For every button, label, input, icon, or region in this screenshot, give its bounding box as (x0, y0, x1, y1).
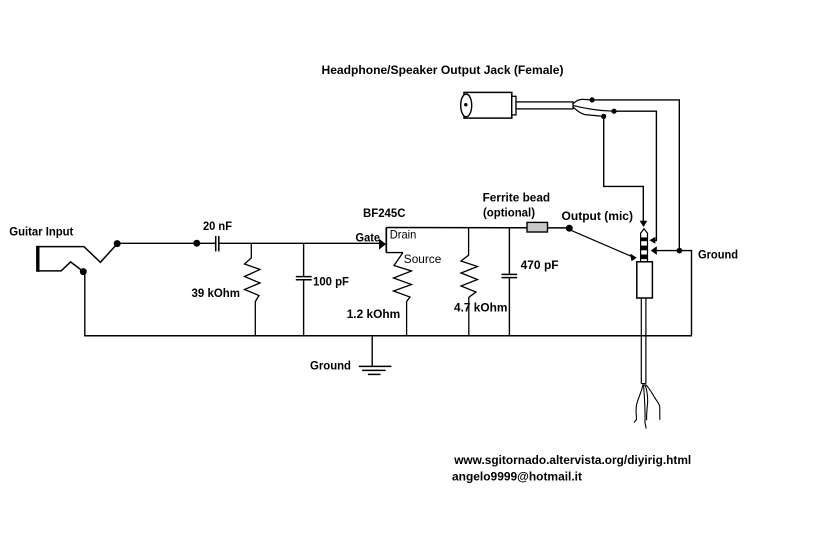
label: Drain (390, 227, 417, 241)
label: email (452, 470, 582, 484)
wire: ground link to right bus (657, 251, 692, 336)
wire: C1 to gate (220, 242, 380, 244)
node: contact B junction dot (611, 109, 616, 114)
label: 100 pF (313, 275, 349, 289)
label: 470 pF (521, 258, 559, 272)
node: contact A junction dot (590, 97, 595, 102)
label: (optional) (483, 205, 535, 219)
wire: bottom ground rail (84, 335, 692, 337)
svg-text:Headphone/Speaker Output Jack: Headphone/Speaker Output Jack (Female) (322, 63, 564, 77)
label: BF245C (363, 206, 406, 220)
svg-text:Ground: Ground (310, 358, 351, 372)
node: tip contact dot (114, 240, 121, 247)
node: sleeve contact dot (80, 268, 87, 275)
label: 39 kOhm (192, 286, 241, 300)
wire: jack contact C (tip) to plug tip (573, 107, 643, 221)
label: 20 nF (203, 219, 232, 233)
svg-text:Ferrite bead: Ferrite bead (483, 191, 550, 205)
svg-text:(optional): (optional) (483, 205, 535, 219)
frayed wire strand 1 (634, 385, 643, 423)
resistor R3 4.7 kOhm (461, 228, 478, 336)
ground symbol (359, 336, 392, 375)
node: output terminal dot (566, 225, 573, 232)
label: Output (mic) (562, 209, 634, 223)
arrowhead: ground into plug ring right (651, 246, 657, 255)
label: Gate (356, 231, 381, 245)
svg-text:Ground: Ground (698, 247, 738, 261)
svg-text:angelo9999@hotmail.it: angelo9999@hotmail.it (452, 470, 582, 484)
arrowhead: into plug left side (630, 254, 637, 262)
wire: output diagonal to plug sleeve (572, 231, 632, 257)
connector P1 TRS plug tip (641, 229, 648, 238)
transistor Q1 channel bar (385, 227, 387, 252)
wire: sleeve to ground rail (84, 272, 86, 336)
svg-text:BF245C: BF245C (363, 206, 406, 220)
svg-text:4.7 kOhm: 4.7 kOhm (454, 300, 507, 314)
frayed wire strand 4 (646, 385, 660, 420)
label: 1.2 kOhm (347, 307, 401, 321)
svg-text:Drain: Drain (390, 227, 417, 241)
svg-text:1.2 kOhm: 1.2 kOhm (347, 307, 401, 321)
connector P1 ring stack (640, 238, 648, 262)
node: contact C junction dot (601, 114, 606, 119)
arrowhead: contact B into plug ring (649, 237, 655, 244)
svg-text:www.sgitornado.altervista.org/: www.sgitornado.altervista.org/diyirig.ht… (453, 453, 691, 467)
svg-text:Gate: Gate (356, 231, 381, 245)
svg-text:39 kOhm: 39 kOhm (192, 286, 241, 300)
resistor R1 39 kOhm (245, 243, 261, 335)
svg-text:Output (mic): Output (mic) (562, 209, 634, 223)
transistor Q1 gate arrow (379, 239, 386, 250)
connector J2 female output jack body (461, 92, 573, 118)
svg-text:Source: Source (404, 252, 442, 266)
capacitor C2 100 pF (296, 243, 312, 335)
svg-text:470 pF: 470 pF (521, 258, 559, 272)
label: Ground (left) (310, 358, 351, 372)
connector J1 guitar input jack (36, 244, 117, 272)
frayed wire strand 3 (645, 385, 648, 421)
label: Ground (right) (698, 247, 738, 261)
wire: input signal to C1 (117, 242, 215, 244)
label: website url (453, 453, 691, 467)
node: junction dot before C1 (193, 240, 200, 247)
frayed wire strand 2 (644, 385, 647, 429)
label: Ferrite bead (483, 191, 550, 205)
wire: jack contact B (ring) to plug ring (573, 106, 656, 241)
wire: drain rail (386, 227, 566, 229)
label: Guitar Input (9, 224, 73, 238)
svg-text:Guitar Input: Guitar Input (9, 224, 73, 238)
wire: source lead (386, 253, 402, 254)
label: 4.7 kOhm (454, 300, 507, 314)
node: ground junction dot (677, 248, 683, 254)
connector P1 plug body (637, 262, 653, 298)
svg-text:100 pF: 100 pF (313, 275, 349, 289)
cable from plug (641, 298, 646, 384)
label: Headphone/Speaker Output Jack (Female) (322, 63, 564, 77)
wire: jack contact A (sleeve) to ground bus (573, 99, 679, 250)
label: Source (404, 252, 442, 266)
capacitor C3 470 pF (502, 228, 518, 336)
arrowhead: down into plug tip (640, 221, 648, 227)
svg-text:20 nF: 20 nF (203, 219, 232, 233)
resistor R2 1.2 kOhm (394, 254, 412, 336)
ferrite bead FB1 (527, 222, 548, 232)
capacitor C1 20 nF (216, 236, 219, 251)
